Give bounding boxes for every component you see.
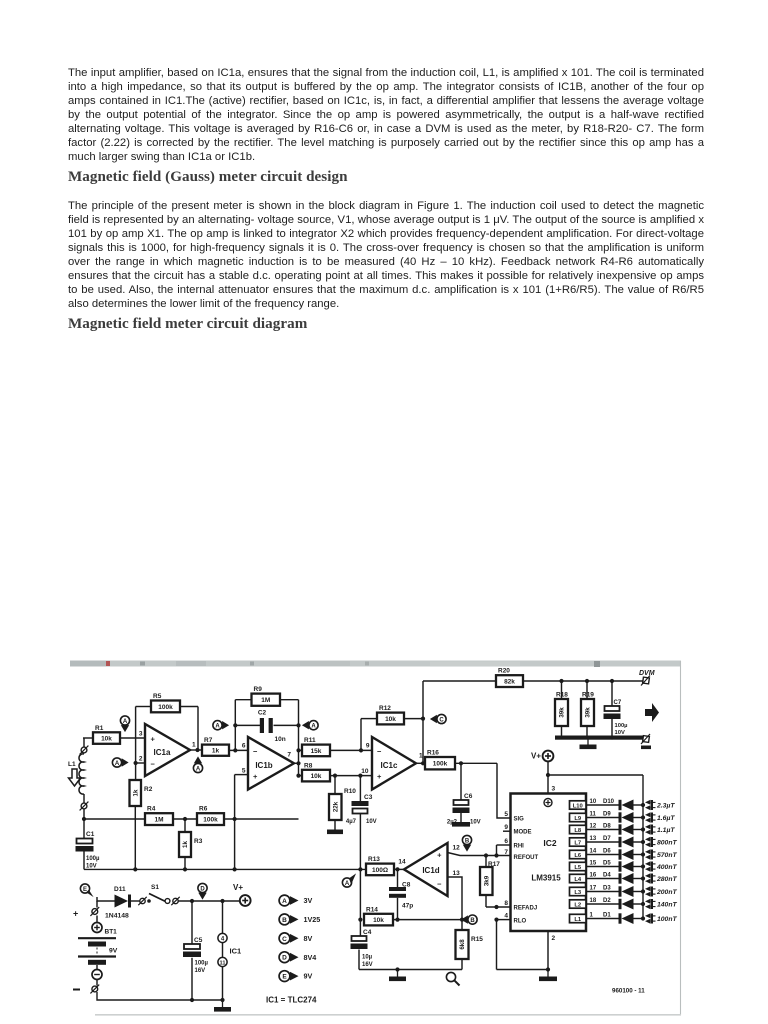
svg-text:570nT: 570nT [657, 852, 677, 859]
svg-text:1N4148: 1N4148 [105, 913, 129, 920]
svg-text:REFADJ: REFADJ [514, 906, 538, 912]
svg-text:L10: L10 [573, 803, 583, 809]
svg-text:R17: R17 [488, 861, 500, 868]
svg-text:100Ω: 100Ω [372, 867, 388, 874]
svg-text:39k: 39k [585, 707, 592, 718]
svg-text:R19: R19 [582, 692, 594, 699]
svg-text:RHI: RHI [514, 843, 525, 849]
svg-text:C: C [282, 936, 287, 943]
svg-text:7: 7 [287, 752, 291, 759]
svg-text:15k: 15k [311, 748, 322, 755]
svg-text:10n: 10n [275, 736, 286, 743]
svg-text:22k: 22k [332, 801, 339, 812]
svg-text:R1: R1 [95, 725, 104, 732]
svg-text:1k: 1k [182, 841, 189, 848]
svg-text:A: A [311, 724, 316, 730]
svg-text:16V: 16V [362, 962, 373, 968]
svg-text:280nT: 280nT [656, 876, 677, 883]
svg-text:R7: R7 [204, 737, 213, 744]
svg-text:R8: R8 [304, 762, 313, 769]
svg-text:R16: R16 [427, 750, 439, 757]
svg-text:9: 9 [366, 743, 370, 750]
svg-text:10: 10 [361, 768, 369, 775]
svg-text:L1: L1 [574, 917, 582, 923]
svg-text:−: − [151, 760, 156, 769]
svg-text:2: 2 [552, 935, 556, 942]
svg-text:1V25: 1V25 [304, 915, 321, 924]
svg-text:6: 6 [242, 743, 246, 750]
svg-text:C7: C7 [614, 700, 622, 706]
svg-text:15: 15 [590, 861, 597, 867]
svg-text:2µ2: 2µ2 [447, 820, 458, 826]
svg-text:+: + [437, 851, 442, 860]
svg-text:+: + [151, 735, 156, 744]
svg-text:D3: D3 [603, 886, 611, 892]
svg-text:960100 - 11: 960100 - 11 [612, 988, 645, 995]
svg-text:D9: D9 [603, 812, 611, 818]
svg-text:R15: R15 [471, 936, 483, 943]
svg-text:C4: C4 [363, 929, 372, 936]
svg-text:10k: 10k [101, 735, 112, 742]
svg-text:200nT: 200nT [656, 889, 677, 896]
svg-text:10V: 10V [615, 730, 625, 736]
svg-text:800nT: 800nT [657, 840, 677, 847]
svg-text:3: 3 [139, 731, 143, 738]
svg-text:L3: L3 [574, 890, 582, 896]
svg-text:3: 3 [552, 786, 556, 793]
svg-text:−: − [253, 747, 258, 756]
svg-text:D: D [282, 955, 287, 962]
svg-text:13: 13 [453, 870, 461, 877]
svg-text:B: B [282, 917, 287, 924]
svg-text:5: 5 [242, 768, 246, 775]
svg-text:16V: 16V [195, 968, 206, 974]
svg-text:1k: 1k [212, 748, 220, 755]
svg-text:C: C [439, 717, 444, 723]
svg-text:D5: D5 [603, 861, 611, 867]
svg-text:12: 12 [590, 824, 597, 830]
svg-text:10V: 10V [86, 864, 97, 870]
svg-text:L8: L8 [574, 828, 582, 834]
svg-text:+: + [377, 772, 382, 781]
svg-text:C8: C8 [402, 882, 411, 889]
svg-text:R4: R4 [147, 806, 156, 813]
svg-text:140nT: 140nT [657, 902, 677, 909]
svg-text:C6: C6 [464, 793, 473, 800]
svg-text:1.1µT: 1.1µT [657, 827, 675, 834]
svg-text:D: D [200, 886, 205, 892]
svg-text:8V: 8V [304, 934, 313, 943]
svg-text:R2: R2 [144, 786, 153, 793]
svg-text:L2: L2 [574, 902, 581, 908]
svg-text:1M: 1M [154, 817, 163, 824]
svg-text:400nT: 400nT [656, 864, 677, 871]
svg-text:E: E [83, 887, 87, 893]
svg-text:D2: D2 [603, 898, 611, 904]
svg-text:100k: 100k [158, 704, 173, 711]
svg-text:13: 13 [590, 836, 597, 842]
svg-text:1k: 1k [132, 789, 139, 796]
svg-text:L5: L5 [574, 865, 582, 871]
svg-text:IC1d: IC1d [422, 866, 439, 875]
svg-text:8: 8 [504, 900, 508, 907]
svg-text:D10: D10 [603, 799, 615, 805]
svg-text:REFOUT: REFOUT [514, 855, 539, 861]
svg-text:16: 16 [590, 873, 597, 879]
svg-text:L9: L9 [574, 816, 582, 822]
svg-text:6: 6 [504, 838, 508, 845]
svg-text:SIG: SIG [514, 817, 525, 823]
svg-text:11: 11 [590, 812, 597, 818]
svg-text:LM3915: LM3915 [531, 874, 561, 883]
svg-text:100nT: 100nT [657, 916, 677, 923]
svg-text:R14: R14 [366, 906, 378, 913]
svg-text:A: A [345, 881, 350, 887]
svg-text:12: 12 [453, 845, 461, 852]
svg-text:RLO: RLO [514, 918, 527, 924]
svg-text:IC1 = TLC274: IC1 = TLC274 [266, 996, 317, 1005]
svg-text:A: A [123, 719, 128, 725]
svg-text:17: 17 [590, 886, 597, 892]
svg-text:R11: R11 [304, 737, 316, 744]
svg-text:47p: 47p [402, 903, 413, 910]
svg-text:3V: 3V [304, 896, 313, 905]
svg-text:39k: 39k [559, 707, 566, 718]
svg-text:1: 1 [192, 742, 196, 749]
svg-text:B: B [470, 918, 475, 924]
svg-text:D8: D8 [603, 824, 611, 830]
svg-text:IC1b: IC1b [255, 761, 272, 770]
svg-text:MODE: MODE [514, 830, 532, 836]
svg-text:R10: R10 [344, 788, 356, 795]
svg-text:14: 14 [398, 859, 406, 866]
svg-text:10µ: 10µ [362, 955, 373, 961]
svg-text:9V: 9V [304, 972, 313, 981]
svg-text:R5: R5 [153, 693, 162, 700]
svg-text:A: A [115, 761, 120, 767]
svg-text:D1: D1 [603, 913, 611, 919]
svg-text:L4: L4 [574, 877, 582, 883]
svg-text:A: A [215, 724, 220, 730]
svg-text:10k: 10k [373, 917, 384, 924]
svg-text:100k: 100k [433, 761, 448, 768]
svg-text:10k: 10k [385, 716, 396, 723]
svg-text:10V: 10V [366, 819, 377, 825]
svg-text:R13: R13 [368, 856, 380, 863]
svg-text:9: 9 [504, 824, 508, 831]
svg-text:E: E [282, 974, 287, 981]
svg-text:2.3µT: 2.3µT [656, 803, 675, 810]
svg-text:BT1: BT1 [105, 929, 118, 936]
svg-text:2: 2 [139, 756, 143, 763]
svg-text:4µ7: 4µ7 [346, 819, 357, 825]
svg-text:R12: R12 [379, 705, 391, 712]
svg-text:6k8: 6k8 [459, 939, 466, 950]
svg-text:D11: D11 [114, 886, 126, 893]
svg-text:10V: 10V [470, 820, 481, 826]
svg-text:10: 10 [590, 799, 597, 805]
svg-text:L7: L7 [574, 840, 581, 846]
svg-text:+: + [73, 909, 78, 919]
svg-text:C3: C3 [364, 794, 373, 801]
svg-text:A: A [196, 766, 201, 772]
svg-text:C1: C1 [86, 831, 95, 838]
svg-text:D7: D7 [603, 836, 611, 842]
svg-text:R9: R9 [254, 686, 263, 693]
svg-text:V+: V+ [233, 883, 243, 892]
svg-text:C2: C2 [258, 710, 267, 717]
svg-text:1M: 1M [261, 697, 270, 704]
svg-text:IC2: IC2 [543, 838, 557, 848]
svg-text:R20: R20 [498, 668, 510, 675]
svg-text:5: 5 [504, 811, 508, 818]
svg-text:+: + [253, 772, 258, 781]
svg-text:DVM: DVM [639, 670, 655, 677]
svg-text:D4: D4 [603, 873, 611, 879]
svg-text:−: − [377, 747, 382, 756]
svg-text:1.6µT: 1.6µT [657, 815, 675, 822]
svg-text:R3: R3 [194, 838, 203, 845]
svg-text:S1: S1 [151, 884, 159, 891]
svg-text:V+: V+ [531, 752, 541, 761]
svg-text:R6: R6 [199, 806, 208, 813]
svg-text:100µ: 100µ [615, 723, 628, 729]
svg-text:14: 14 [590, 849, 597, 855]
svg-text:B: B [465, 838, 470, 844]
svg-text:10k: 10k [311, 773, 322, 780]
svg-text:IC1: IC1 [230, 947, 242, 956]
svg-text:18: 18 [590, 898, 597, 904]
svg-text:100k: 100k [203, 817, 218, 824]
svg-text:L1: L1 [68, 761, 76, 768]
svg-text:3k9: 3k9 [483, 875, 490, 886]
svg-text:D6: D6 [603, 849, 611, 855]
svg-text:C5: C5 [194, 937, 203, 944]
svg-text:100µ: 100µ [86, 856, 100, 862]
svg-text:82k: 82k [504, 679, 515, 686]
svg-text:4: 4 [504, 913, 508, 920]
svg-text:11: 11 [220, 960, 226, 966]
svg-text:IC1a: IC1a [154, 748, 171, 757]
svg-text:100µ: 100µ [195, 961, 209, 967]
svg-text:−: − [437, 880, 442, 889]
svg-text:IC1c: IC1c [381, 761, 398, 770]
svg-text:L6: L6 [574, 853, 582, 859]
svg-text:9V: 9V [109, 948, 118, 955]
svg-text:A: A [282, 898, 287, 905]
svg-text:8V4: 8V4 [304, 953, 317, 962]
